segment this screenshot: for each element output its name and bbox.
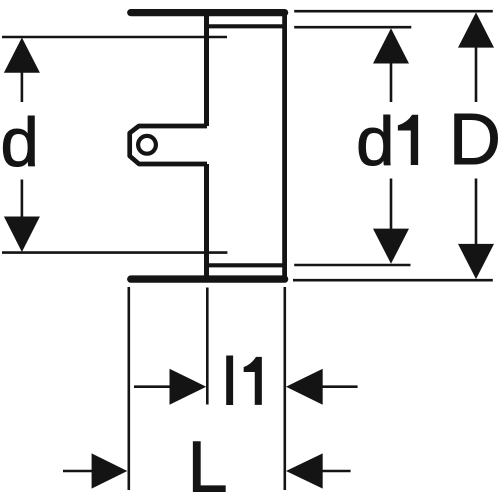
cap inner bore top line	[207, 24, 284, 28]
dimension d lower stem	[21, 180, 24, 219]
cap open-end face upper segment	[204, 10, 209, 127]
dimension L right arrowhead	[286, 453, 323, 488]
dimension D lower stem	[475, 179, 478, 246]
dimension l1 left vertical extension line	[206, 288, 209, 405]
svg-text:L: L	[188, 428, 228, 500]
dimension D lower arrowhead	[458, 244, 494, 279]
dimension l1 right leader line	[322, 385, 358, 388]
dimension D upper arrowhead	[458, 12, 494, 47]
svg-text:d: d	[1, 104, 39, 181]
latch tab outline	[130, 126, 207, 164]
dimension d1 upper arrowhead	[373, 28, 409, 63]
dimension D top extension line	[294, 10, 493, 13]
cap outer top wall	[131, 9, 285, 16]
latch hole circle	[138, 136, 156, 154]
dimension D bottom extension line	[293, 279, 493, 282]
dimension d top extension line	[2, 36, 227, 39]
dimension d1 lower stem	[390, 179, 393, 230]
dimension d upper stem	[21, 71, 24, 102]
dimension d lower arrowhead	[4, 217, 40, 253]
dimension L left vertical extension line	[128, 287, 131, 490]
dimension l1/L shared right vertical extension line	[283, 287, 286, 490]
dimension d bottom extension line	[2, 251, 227, 254]
dimension d1 lower arrowhead	[373, 229, 409, 264]
dimension L left arrowhead	[92, 453, 128, 488]
cap outer right wall	[282, 11, 287, 282]
svg-text:d: d	[356, 103, 394, 180]
dimension L right leader line	[322, 470, 351, 473]
cap open-end face lower segment	[204, 164, 209, 279]
dimension l1 left arrowhead	[170, 369, 207, 405]
dimension L left leader line	[63, 470, 92, 473]
dimension l1 left leader line	[134, 385, 170, 388]
dimension d1 bottom extension line	[294, 264, 410, 267]
cap outer bottom wall	[131, 275, 285, 282]
dimension d upper arrowhead	[4, 38, 40, 73]
svg-text:l: l	[222, 345, 237, 419]
dimension d1 upper stem	[390, 62, 393, 102]
svg-text:D: D	[449, 100, 500, 180]
dimension D upper stem	[475, 46, 478, 102]
cap inner bore bottom line	[207, 263, 284, 267]
dimension l1 right arrowhead	[286, 369, 323, 405]
dimension d1 top extension line	[294, 26, 411, 29]
